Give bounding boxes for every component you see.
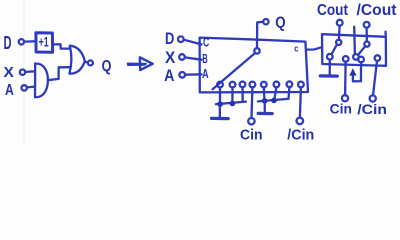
wire — [250, 87, 253, 118]
tie bar — [320, 74, 337, 77]
wire — [184, 40, 202, 45]
switch pivot S1 — [336, 40, 341, 45]
svg-text:/Cin: /Cin — [357, 102, 387, 117]
wire — [241, 87, 243, 102]
terminal Q — [263, 19, 268, 24]
svg-text:D: D — [165, 29, 174, 48]
mux box corner overshoot — [384, 32, 387, 38]
wire — [185, 73, 201, 76]
pin 7 — [287, 81, 293, 87]
wire — [274, 87, 276, 100]
OR gate — [69, 46, 84, 74]
arrowhead — [349, 68, 356, 75]
tie bar — [258, 112, 272, 115]
wire — [219, 87, 221, 104]
wire — [53, 44, 71, 48]
wire — [365, 28, 368, 42]
wire — [24, 40, 35, 43]
terminal Q — [88, 60, 93, 65]
wire — [300, 87, 301, 117]
contact — [343, 56, 349, 62]
AND gate — [35, 63, 48, 97]
wire — [85, 62, 88, 63]
paper crease line — [23, 0, 25, 144]
svg-text:X: X — [4, 64, 14, 81]
pin 5 — [261, 82, 267, 88]
svg-text:X: X — [165, 48, 176, 67]
terminal Cout — [337, 20, 343, 26]
pin 8 — [298, 82, 304, 88]
tie stub — [264, 101, 266, 113]
wire c output — [307, 47, 322, 49]
mux box U2 — [322, 34, 386, 66]
contact — [327, 54, 333, 60]
terminal /Cin — [370, 95, 376, 101]
pin 4 — [250, 82, 256, 88]
wiper pivot — [254, 48, 259, 53]
wire — [338, 26, 341, 40]
wire — [25, 70, 34, 73]
svg-text:Q: Q — [275, 15, 285, 32]
bus wire — [258, 99, 288, 102]
junction — [262, 98, 268, 104]
wire Q — [257, 22, 263, 48]
wire arrow feedback — [353, 62, 361, 81]
svg-text:Q: Q — [102, 58, 112, 75]
bus wire — [216, 102, 246, 105]
wire — [48, 67, 71, 80]
terminal D — [19, 39, 24, 44]
svg-text:A: A — [164, 66, 174, 85]
terminal /Cin — [297, 118, 304, 125]
switch lever S1 — [332, 45, 337, 55]
terminal A — [22, 85, 27, 90]
terminal Cin — [342, 95, 348, 101]
terminal X — [20, 70, 25, 75]
svg-text:B: B — [202, 52, 208, 66]
wire — [27, 85, 35, 88]
implies arrow — [128, 64, 146, 66]
svg-text:/Cin: /Cin — [287, 128, 314, 144]
svg-text:A: A — [5, 82, 14, 99]
contact — [353, 54, 359, 60]
junction — [271, 98, 277, 104]
selector box U1 — [200, 38, 308, 93]
wire — [231, 87, 233, 103]
terminal X — [179, 54, 185, 60]
terminal /Cout — [364, 22, 370, 28]
svg-text:C: C — [203, 35, 209, 49]
contact — [358, 57, 364, 63]
tie stub — [329, 60, 331, 75]
svg-text:Cin: Cin — [330, 101, 352, 116]
svg-text:Cout: Cout — [317, 2, 349, 19]
terminal A — [179, 72, 185, 78]
selector wiper — [213, 53, 256, 89]
pin 3 — [240, 82, 246, 88]
tie stub — [219, 104, 221, 117]
svg-text:Cin: Cin — [240, 128, 263, 144]
svg-text:c: c — [294, 44, 298, 55]
pin 6 — [274, 82, 280, 88]
svg-text:A: A — [202, 66, 209, 81]
svg-text:D: D — [4, 33, 12, 53]
svg-text:+1: +1 — [39, 33, 49, 49]
pin 1 — [217, 82, 223, 88]
increment box +1 — [36, 33, 53, 52]
wire — [344, 62, 347, 95]
junction — [230, 101, 236, 107]
junction — [217, 101, 223, 107]
wire — [373, 61, 377, 95]
terminal Cin — [248, 118, 254, 124]
pin 2 — [230, 82, 236, 88]
wire — [287, 87, 290, 99]
tie bar — [212, 117, 229, 120]
svg-text:/Cout: /Cout — [357, 2, 398, 19]
wire — [185, 57, 202, 59]
contact — [375, 55, 381, 61]
divider wire — [353, 27, 356, 54]
switch lever S2 — [358, 46, 365, 55]
switch pivot S2 — [364, 42, 369, 47]
terminal D — [178, 36, 184, 42]
wire — [263, 87, 266, 101]
